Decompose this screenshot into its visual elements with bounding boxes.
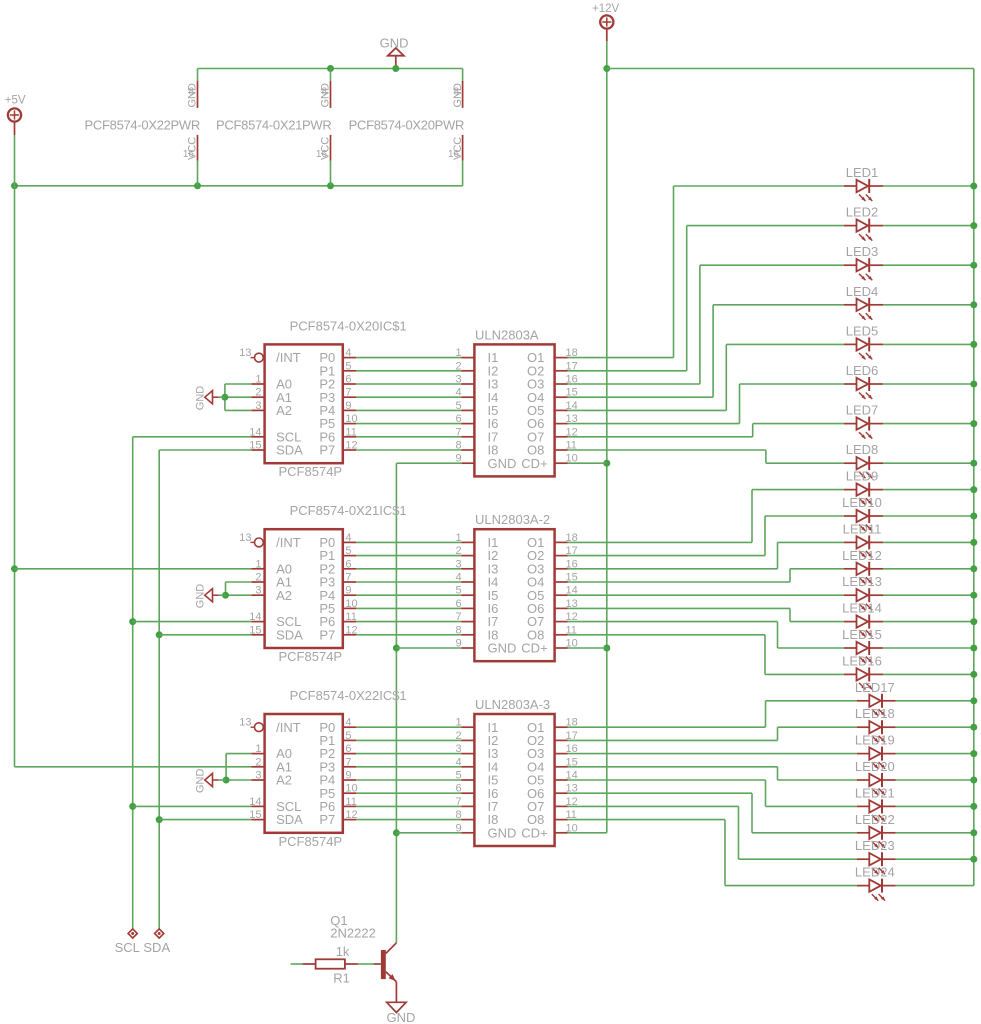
svg-text:LED8: LED8 — [846, 442, 879, 457]
svg-text:/INT: /INT — [276, 720, 301, 735]
svg-text:CD+: CD+ — [521, 825, 547, 840]
svg-text:16: 16 — [448, 149, 460, 160]
svg-text:PCF8574-0X22PWR: PCF8574-0X22PWR — [85, 118, 200, 133]
svg-text:GND: GND — [488, 641, 517, 656]
svg-text:ULN2803A-3: ULN2803A-3 — [475, 697, 550, 712]
svg-text:8: 8 — [188, 87, 194, 98]
svg-text:6: 6 — [455, 783, 461, 795]
svg-text:PCF8574P: PCF8574P — [279, 834, 343, 849]
svg-text:6: 6 — [455, 598, 461, 610]
svg-text:4: 4 — [455, 572, 461, 584]
svg-text:SDA: SDA — [276, 627, 303, 642]
svg-text:PCF8574P: PCF8574P — [279, 649, 343, 664]
svg-text:A2: A2 — [276, 403, 292, 418]
svg-text:GND: GND — [488, 825, 517, 840]
svg-text:GND: GND — [194, 386, 206, 411]
svg-text:4: 4 — [455, 387, 461, 399]
svg-text:LED23: LED23 — [855, 838, 895, 853]
svg-text:LED5: LED5 — [846, 323, 879, 338]
svg-text:LED3: LED3 — [846, 244, 879, 259]
svg-text:2: 2 — [455, 360, 461, 372]
svg-text:LED17: LED17 — [855, 680, 895, 695]
svg-text:8: 8 — [455, 809, 461, 821]
svg-text:LED9: LED9 — [846, 469, 879, 484]
svg-text:LED24: LED24 — [855, 865, 895, 880]
svg-text:GND: GND — [194, 584, 206, 609]
svg-text:ULN2803A: ULN2803A — [475, 327, 539, 342]
svg-text:3: 3 — [455, 374, 461, 386]
svg-text:A2: A2 — [276, 588, 292, 603]
svg-text:2: 2 — [455, 730, 461, 742]
svg-text:LED4: LED4 — [846, 284, 879, 299]
svg-text:3: 3 — [455, 743, 461, 755]
svg-text:SDA: SDA — [276, 443, 303, 458]
svg-text:1: 1 — [455, 347, 461, 359]
svg-text:16: 16 — [316, 149, 328, 160]
svg-text:13: 13 — [239, 347, 251, 359]
svg-text:SDA: SDA — [276, 812, 303, 827]
svg-text:PCF8574-0X21IC$1: PCF8574-0X21IC$1 — [290, 503, 407, 518]
svg-text:1: 1 — [455, 717, 461, 729]
svg-text:R1: R1 — [333, 970, 350, 985]
svg-text:8: 8 — [454, 87, 460, 98]
svg-text:GND: GND — [387, 1010, 416, 1024]
svg-text:LED15: LED15 — [842, 627, 882, 642]
svg-text:PCF8574-0X20IC$1: PCF8574-0X20IC$1 — [290, 318, 407, 333]
svg-text:3: 3 — [455, 558, 461, 570]
svg-text:LED12: LED12 — [842, 548, 882, 563]
svg-text:P7: P7 — [319, 443, 335, 458]
svg-text:PCF8574-0X21PWR: PCF8574-0X21PWR — [216, 118, 331, 133]
svg-text:+5V: +5V — [5, 95, 26, 107]
svg-text:13: 13 — [239, 532, 251, 544]
svg-text:PCF8574-0X22IC$1: PCF8574-0X22IC$1 — [290, 688, 407, 703]
svg-text:LED7: LED7 — [846, 403, 879, 418]
svg-text:LED10: LED10 — [842, 495, 882, 510]
svg-text:/INT: /INT — [276, 535, 301, 550]
svg-text:8: 8 — [455, 440, 461, 452]
svg-text:6: 6 — [455, 413, 461, 425]
svg-text:LED2: LED2 — [846, 205, 879, 220]
svg-text:2: 2 — [455, 545, 461, 557]
svg-text:LED1: LED1 — [846, 165, 879, 180]
svg-text:13: 13 — [239, 717, 251, 729]
svg-text:CD+: CD+ — [521, 456, 547, 471]
svg-text:LED11: LED11 — [843, 521, 882, 536]
svg-text:1k: 1k — [336, 944, 350, 959]
svg-text:SDA: SDA — [143, 940, 170, 955]
svg-text:GND: GND — [488, 456, 517, 471]
svg-text:PCF8574-0X20PWR: PCF8574-0X20PWR — [349, 118, 464, 133]
svg-text:LED19: LED19 — [855, 733, 895, 748]
svg-text:/INT: /INT — [276, 350, 301, 365]
svg-text:LED22: LED22 — [855, 812, 895, 827]
svg-text:A2: A2 — [276, 773, 292, 788]
svg-text:+12V: +12V — [592, 3, 620, 15]
svg-text:8: 8 — [455, 624, 461, 636]
svg-text:5: 5 — [455, 585, 461, 597]
svg-text:P7: P7 — [319, 812, 335, 827]
svg-text:16: 16 — [183, 149, 195, 160]
svg-text:LED16: LED16 — [842, 653, 882, 668]
svg-text:LED6: LED6 — [846, 363, 879, 378]
svg-text:2N2222: 2N2222 — [330, 925, 376, 940]
svg-text:7: 7 — [455, 796, 461, 808]
svg-text:GND: GND — [380, 36, 409, 51]
svg-text:4: 4 — [455, 756, 461, 768]
svg-text:LED18: LED18 — [855, 706, 895, 721]
svg-text:CD+: CD+ — [521, 641, 547, 656]
svg-text:PCF8574P: PCF8574P — [279, 464, 343, 479]
svg-text:LED13: LED13 — [842, 574, 882, 589]
svg-text:LED14: LED14 — [842, 601, 882, 616]
svg-text:8: 8 — [321, 87, 327, 98]
svg-text:LED21: LED21 — [855, 785, 895, 800]
svg-text:SCL: SCL — [115, 940, 140, 955]
svg-text:7: 7 — [455, 611, 461, 623]
svg-text:5: 5 — [455, 400, 461, 412]
svg-text:7: 7 — [455, 426, 461, 438]
svg-text:P7: P7 — [319, 627, 335, 642]
svg-text:LED20: LED20 — [855, 759, 895, 774]
svg-text:1: 1 — [455, 532, 461, 544]
svg-text:5: 5 — [455, 770, 461, 782]
svg-text:GND: GND — [194, 769, 206, 794]
svg-text:ULN2803A-2: ULN2803A-2 — [475, 512, 550, 527]
